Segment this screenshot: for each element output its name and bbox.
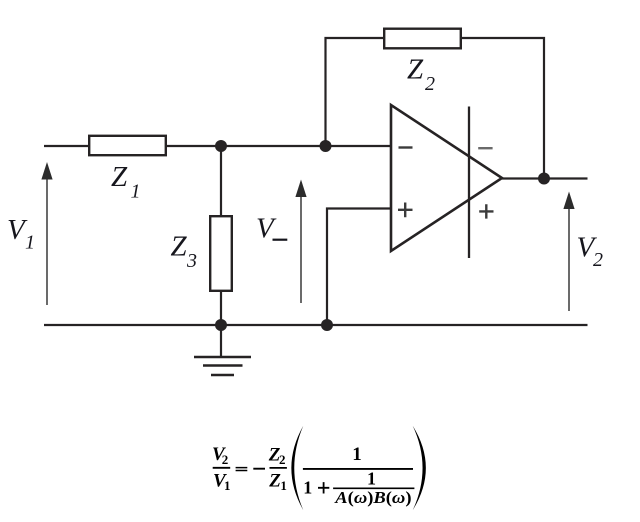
svg-text:A(ω)B(ω): A(ω)B(ω) (334, 488, 411, 508)
svg-text:Z: Z (407, 54, 424, 86)
svg-text:1: 1 (367, 468, 376, 488)
svg-text:1: 1 (303, 477, 312, 497)
svg-text:Z: Z (171, 231, 188, 263)
svg-text:1: 1 (25, 232, 35, 254)
svg-text:2: 2 (425, 73, 435, 95)
svg-text:2: 2 (593, 249, 603, 271)
svg-text:1: 1 (280, 478, 287, 493)
svg-text:1: 1 (224, 478, 231, 493)
svg-text:Z: Z (111, 161, 128, 193)
svg-text:1: 1 (131, 181, 141, 203)
svg-text:3: 3 (186, 250, 197, 272)
svg-text:2: 2 (279, 452, 286, 467)
svg-text:1: 1 (352, 444, 362, 465)
svg-text:2: 2 (222, 452, 229, 467)
svg-text:Z: Z (268, 470, 281, 491)
